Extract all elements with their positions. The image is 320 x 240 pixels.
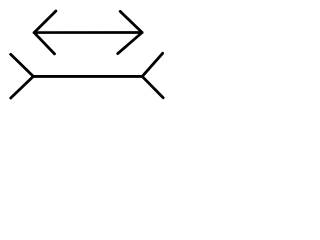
left inward fin of bottom line [11,54,34,98]
top arrow shaft [34,31,142,34]
bottom line shaft [33,75,142,78]
right inward fin of bottom line [142,53,163,97]
left arrowhead of top arrow [34,11,56,54]
right arrowhead of top arrow [118,11,142,53]
